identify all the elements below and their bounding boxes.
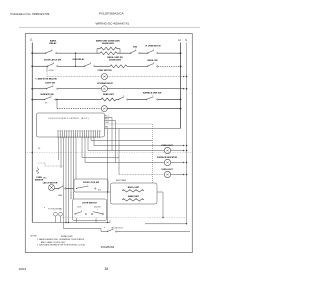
svg-text:DOOR LOCK SW: DOOR LOCK SW [83,182,99,184]
svg-text:1. BAKE ELEMENT WILL OPERATE A: 1. BAKE ELEMENT WILL OPERATE AT 750W IN … [37,238,85,241]
svg-text:10/04: 10/04 [19,267,27,271]
svg-text:PGLEF365AS/CA: PGLEF365AS/CA [99,12,125,16]
svg-text:15A25294: 15A25294 [101,245,115,249]
svg-text:CONV MOTOR: CONV MOTOR [97,70,112,72]
svg-text:LATCH MOTOR: LATCH MOTOR [43,181,58,184]
svg-text:N.O.: N.O. [98,190,102,192]
svg-text:REAR UNIT: REAR UNIT [103,93,115,96]
svg-text:P4: P4 [38,148,40,150]
svg-text:COOK: COOK [49,70,55,72]
svg-text:MDL: MDL [43,178,47,180]
svg-text:BAKE: BAKE [50,40,57,43]
svg-text:* ( SEE NOTE BELOW: * ( SEE NOTE BELOW [35,79,57,81]
svg-text:SURFACE SW: SURFACE SW [40,93,53,96]
svg-text:AND CLEAN CYCLES ONLY: AND CLEAN CYCLES ONLY [41,241,66,244]
svg-text:18: 18 [105,267,109,271]
svg-text:2. SWITCHES SHOWN IN OFF POSIT: 2. SWITCHES SHOWN IN OFF POSITION (NO CL… [37,245,85,247]
svg-text:BROIL UNIT: BROIL UNIT [128,187,140,189]
svg-text:BAKE UNIT: BAKE UNIT [128,195,140,198]
svg-text:*: * [44,206,45,210]
svg-text:LIGHT SW: LIGHT SW [45,83,55,85]
svg-text:RELAY: RELAY [49,42,57,45]
svg-text:AT REAR RIGHT: AT REAR RIGHT [97,82,113,85]
svg-text:OVEN LIGHT: OVEN LIGHT [161,169,173,171]
svg-text:2600W 240V: 2600W 240V [102,42,115,45]
svg-text:3000W 240V: 3000W 240V [109,59,122,62]
svg-text:N: N [185,39,187,42]
svg-text:Publication No. 5995421739: Publication No. 5995421739 [11,12,50,16]
svg-text:WIRING-SC-4(5AAK7X): WIRING-SC-4(5AAK7X) [96,22,129,26]
svg-text:IF OVEN SET IN: IF OVEN SET IN [145,46,161,48]
svg-text:TO TOUCH PAD: TO TOUCH PAD [48,207,63,210]
svg-text:BROIL SW: BROIL SW [148,60,158,62]
svg-text:P3: P3 [45,103,47,105]
svg-text:SURFACE INDICATOR: SURFACE INDICATOR [157,156,178,159]
svg-text:TOD: TOD [133,46,138,48]
svg-text:DLB RELAY: DLB RELAY [73,58,85,61]
svg-text:NOTE:: NOTE: [31,236,38,238]
svg-text:SERIAL PLATE: SERIAL PLATE [61,235,74,238]
svg-text:OVEN LIGHT: OVEN LIGHT [161,145,173,147]
svg-text:SURFACE UNIT SW: SURFACE UNIT SW [143,91,162,94]
svg-text:SER.TIMER: SER.TIMER [116,180,127,182]
svg-text:BAKE UNIT 3000W 240V: BAKE UNIT 3000W 240V [96,40,121,43]
svg-text:CAM: CAM [58,194,62,197]
svg-text:*: * [104,227,105,230]
svg-text:DOOR LATCH SW: DOOR LATCH SW [44,59,61,62]
svg-text:DOOR SWITCH: DOOR SWITCH [82,202,97,204]
svg-text:CLOCK/OVEN CONTROL (EOC): CLOCK/OVEN CONTROL (EOC) [48,118,89,120]
svg-text:UNLOCK: UNLOCK [94,206,102,208]
